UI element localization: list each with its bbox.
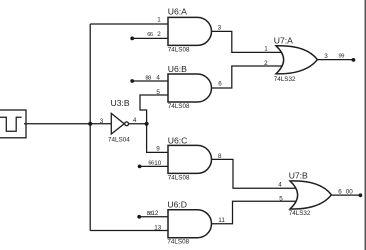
stub wire net 66 to U6:C pin 10 bbox=[140, 165, 168, 167]
svg-text:2: 2 bbox=[264, 60, 268, 67]
svg-text:12: 12 bbox=[151, 210, 159, 217]
svg-text:U7:B: U7:B bbox=[289, 170, 308, 180]
svg-text:74LS04: 74LS04 bbox=[108, 137, 130, 144]
svg-text:66: 66 bbox=[147, 32, 153, 38]
svg-text:88: 88 bbox=[145, 75, 151, 81]
node junction at inverter output bbox=[145, 122, 149, 126]
sheet border bbox=[364, 0, 366, 250]
svg-text:74LS32: 74LS32 bbox=[289, 210, 311, 217]
wire U6:B output to U7:A pin 2 bbox=[212, 66, 283, 88]
stub wire net 88 to U6:B pin 4 bbox=[132, 80, 168, 82]
AND gate U6:D bbox=[168, 210, 212, 238]
svg-text:74LS32: 74LS32 bbox=[274, 76, 296, 83]
svg-text:4: 4 bbox=[278, 181, 282, 188]
svg-text:4: 4 bbox=[133, 117, 137, 124]
wire inverter output to junction bbox=[129, 123, 147, 125]
svg-text:U6:B: U6:B bbox=[168, 64, 187, 74]
svg-text:74LS08: 74LS08 bbox=[167, 238, 189, 245]
wire U7:B output bbox=[331, 194, 360, 196]
OR gate U7:A bbox=[276, 46, 317, 74]
wire U6:D output to U7:B pin 5 bbox=[212, 201, 297, 224]
svg-text:74LS08: 74LS08 bbox=[168, 174, 190, 181]
wire junction down to U6:C pin 9 bbox=[147, 124, 168, 153]
svg-text:1: 1 bbox=[264, 46, 268, 53]
node junction at source bus bbox=[88, 122, 92, 126]
wire to U6:D pin 13 bbox=[90, 230, 168, 232]
svg-text:8: 8 bbox=[218, 153, 222, 160]
svg-text:1: 1 bbox=[157, 17, 161, 24]
svg-text:U6:C: U6:C bbox=[168, 135, 188, 145]
svg-text:U6:A: U6:A bbox=[168, 7, 187, 17]
svg-text:U6:D: U6:D bbox=[167, 200, 187, 210]
svg-text:99: 99 bbox=[339, 54, 345, 60]
wire junction up to U6:B pin 5 bbox=[140, 95, 168, 124]
wire from source to inverter input bbox=[24, 123, 112, 125]
svg-text:5: 5 bbox=[156, 89, 160, 96]
wire U6:A output to U7:A pin 1 bbox=[212, 31, 283, 52]
svg-text:9: 9 bbox=[156, 146, 160, 153]
svg-text:4: 4 bbox=[156, 74, 160, 81]
svg-text:3: 3 bbox=[218, 24, 222, 31]
wire U7:A output bbox=[317, 59, 353, 61]
wire to U6:A pin 1 bbox=[90, 23, 168, 25]
svg-text:74LS08: 74LS08 bbox=[168, 103, 190, 110]
svg-text:6: 6 bbox=[338, 189, 342, 196]
inverter U3:B bbox=[111, 113, 128, 134]
stub wire net 88 to U6:D pin 12 bbox=[139, 216, 168, 218]
svg-text:5: 5 bbox=[279, 196, 283, 203]
wire U6:C output to U7:B pin 4 bbox=[212, 159, 297, 188]
stub wire net 66 to U6:A pin 2 bbox=[132, 37, 168, 39]
AND gate U6:A bbox=[168, 17, 212, 45]
svg-text:2: 2 bbox=[157, 31, 161, 38]
svg-text:13: 13 bbox=[154, 224, 162, 231]
svg-text:U7:A: U7:A bbox=[274, 36, 293, 46]
svg-text:3: 3 bbox=[324, 53, 328, 60]
svg-text:11: 11 bbox=[218, 217, 225, 224]
svg-text:U3:B: U3:B bbox=[111, 98, 130, 108]
svg-text:6: 6 bbox=[218, 81, 222, 88]
AND gate U6:B bbox=[168, 74, 212, 102]
svg-text:3: 3 bbox=[100, 118, 104, 125]
svg-text:74LS08: 74LS08 bbox=[168, 46, 190, 53]
AND gate U6:C bbox=[168, 145, 212, 173]
wire vertical bus from junction bbox=[89, 24, 91, 231]
svg-text:10: 10 bbox=[154, 160, 162, 167]
OR gate U7:B bbox=[290, 181, 331, 209]
pulse source bbox=[0, 110, 26, 138]
svg-text:00: 00 bbox=[346, 188, 354, 195]
